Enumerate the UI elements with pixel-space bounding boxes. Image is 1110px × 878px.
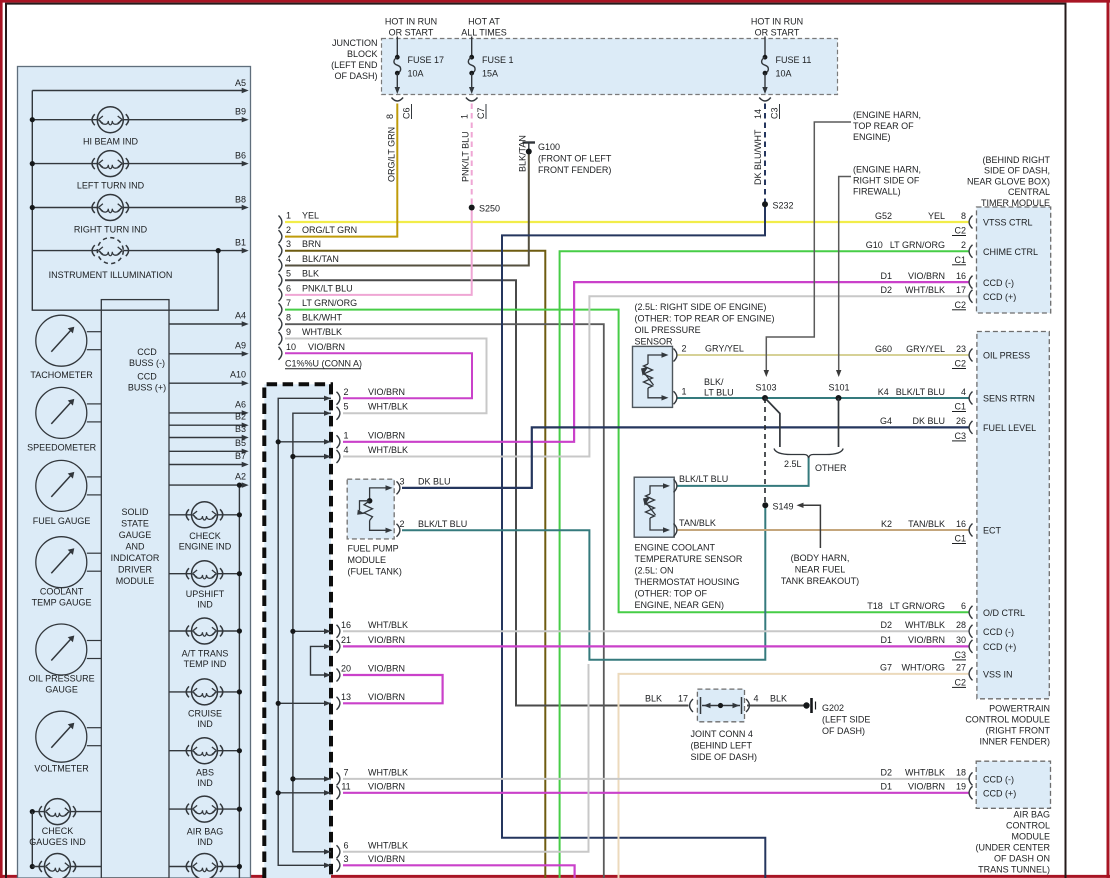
powertrain control module box: [977, 332, 1049, 699]
splice S101: [836, 395, 842, 401]
svg-text:VIO/BRN: VIO/BRN: [368, 430, 405, 440]
svg-text:7: 7: [343, 767, 348, 777]
svg-text:2.5L: 2.5L: [784, 459, 802, 469]
svg-text:TIMER MODULE: TIMER MODULE: [981, 198, 1050, 208]
svg-text:OF DASH): OF DASH): [334, 71, 377, 81]
svg-text:SOLID: SOLID: [121, 507, 149, 517]
oil pressure sensor box: [633, 346, 673, 407]
fuel pump wiper arrow: [360, 501, 370, 511]
lamp A/T TRANS TEMP IND: [192, 618, 218, 644]
svg-text:30: 30: [956, 635, 966, 645]
lamp CHECK GAUGES IND: [44, 799, 70, 825]
svg-text:A9: A9: [235, 340, 246, 350]
svg-text:ALL TIMES: ALL TIMES: [461, 28, 507, 38]
svg-text:D2: D2: [880, 620, 892, 630]
connector arrow at y 646.4: [324, 644, 331, 649]
engine coolant temperature sensor resistor: [646, 494, 655, 518]
svg-text:O/D CTRL: O/D CTRL: [983, 608, 1025, 618]
svg-text:5: 5: [286, 269, 291, 279]
svg-text:BLK/LT BLU: BLK/LT BLU: [896, 387, 945, 397]
lamp HI BEAM IND: [97, 107, 123, 133]
svg-text:UPSHIFT: UPSHIFT: [186, 589, 225, 599]
svg-text:A10: A10: [230, 370, 246, 380]
gauge VOLTMETER: [36, 711, 87, 762]
lamp CRUISE IND wire: [169, 691, 239, 693]
svg-text:(FRONT OF LEFT: (FRONT OF LEFT: [538, 154, 612, 164]
svg-text:6: 6: [961, 601, 966, 611]
svg-text:WHT/BLK: WHT/BLK: [905, 620, 945, 630]
svg-text:B7: B7: [235, 451, 246, 461]
svg-text:ENGINE, NEAR GEN): ENGINE, NEAR GEN): [635, 600, 725, 610]
connector arrow at y 792.8: [324, 790, 331, 795]
lamp CHECK ENGINE IND: [192, 502, 218, 528]
svg-text:CCD (-): CCD (-): [983, 775, 1014, 785]
svg-text:IND: IND: [197, 837, 213, 847]
svg-text:D1: D1: [880, 635, 892, 645]
cluster lamp bus and illumination loop: [32, 91, 218, 311]
svg-text:DRIVER: DRIVER: [118, 565, 153, 575]
wire YEL pin1 to CTM VTSS CTRL: [285, 221, 969, 223]
svg-text:C3: C3: [770, 107, 780, 119]
svg-text:CCD: CCD: [137, 347, 157, 357]
svg-text:AND: AND: [125, 542, 145, 552]
svg-text:S101: S101: [829, 383, 850, 393]
svg-text:ABS: ABS: [196, 768, 214, 778]
svg-text:C1: C1: [954, 534, 966, 544]
svg-text:BLK/: BLK/: [704, 377, 724, 387]
pointer body harn near fuel tank breakout to S149: [801, 505, 820, 548]
svg-text:B1: B1: [235, 238, 246, 248]
svg-text:JUNCTION: JUNCTION: [332, 38, 378, 48]
wire LT GRN/ORG pin7 to PCM O/D CTRL: [285, 310, 969, 613]
svg-text:G4: G4: [880, 416, 892, 426]
svg-text:19: 19: [956, 782, 966, 792]
svg-text:AIR BAG: AIR BAG: [187, 827, 224, 837]
svg-text:CHECK: CHECK: [189, 531, 221, 541]
trunk branch pin1: [278, 441, 331, 443]
svg-text:HOT IN RUN: HOT IN RUN: [385, 17, 437, 27]
connector C3 below fuse 11: [759, 98, 771, 102]
brace 2.5L OTHER: [774, 449, 843, 459]
solid state gauge and indicator driver module box: [101, 300, 169, 878]
svg-text:B3: B3: [235, 424, 246, 434]
svg-text:ENGINE COOLANT: ENGINE COOLANT: [635, 543, 716, 553]
svg-text:BLK/WHT: BLK/WHT: [302, 313, 343, 323]
svg-text:D2: D2: [880, 768, 892, 778]
svg-text:VOLTMETER: VOLTMETER: [34, 764, 89, 774]
svg-text:B9: B9: [235, 107, 246, 117]
svg-text:3: 3: [286, 239, 291, 249]
wire dashed S103 to S149: [764, 398, 766, 505]
joint conn 4 internals: [690, 699, 693, 712]
svg-text:6: 6: [343, 840, 348, 850]
svg-text:10A: 10A: [408, 69, 424, 79]
svg-text:MODULE: MODULE: [348, 555, 387, 565]
svg-text:C1%%U (CONN A): C1%%U (CONN A): [285, 359, 362, 369]
wire stub S101 OTHER option: [838, 398, 840, 447]
svg-text:TANK BREAKOUT): TANK BREAKOUT): [781, 576, 859, 586]
wire BLK joint conn 4 to G202: [747, 705, 805, 707]
svg-text:G202: G202: [822, 703, 844, 713]
wire A6 arrow: [169, 412, 244, 414]
svg-text:BLK/LT BLU: BLK/LT BLU: [679, 474, 728, 484]
svg-text:FRONT FENDER): FRONT FENDER): [538, 165, 611, 175]
wire BLK/LT BLU fuel pump pin2 to S149: [402, 505, 765, 659]
svg-text:YEL: YEL: [302, 211, 319, 221]
connector arrow at y 456.5: [324, 454, 331, 459]
svg-text:GRY/YEL: GRY/YEL: [705, 344, 744, 354]
svg-text:VIO/BRN: VIO/BRN: [368, 387, 405, 397]
svg-text:G60: G60: [875, 344, 892, 354]
svg-text:SIDE OF DASH,: SIDE OF DASH,: [984, 166, 1050, 176]
wire WHT/ORG PCM VSS IN down off page: [619, 674, 970, 878]
svg-text:DK BLU: DK BLU: [912, 416, 945, 426]
splice S232: [762, 201, 768, 207]
svg-text:BLK/LT BLU: BLK/LT BLU: [418, 519, 467, 529]
svg-text:BLK/TAN: BLK/TAN: [518, 135, 528, 172]
wire BLK/TAN pin4 to G100: [285, 153, 529, 266]
wire BLK/LT BLU sensor return S103 S101 to PCM: [678, 397, 970, 399]
svg-text:GAUGE: GAUGE: [119, 530, 152, 540]
svg-text:LT GRN/ORG: LT GRN/ORG: [890, 601, 945, 611]
wire VIO/BRN cluster pin3 down off page: [343, 865, 575, 878]
oil pressure sensor internal wiring: [648, 355, 665, 364]
wire VIO/BRN cluster pin11 to air bag CCD plus: [343, 792, 969, 794]
svg-text:5: 5: [343, 402, 348, 412]
svg-text:D1: D1: [880, 271, 892, 281]
wire GRY/YEL oil pressure sensor to PCM: [678, 354, 970, 356]
wire A9 arrow: [169, 353, 244, 355]
connector arc C1 conn A at y 294.9: [279, 288, 282, 301]
svg-text:VIO/BRN: VIO/BRN: [368, 854, 405, 864]
connector C7 below fuse 1: [466, 98, 478, 102]
svg-text:CONTROL MODULE: CONTROL MODULE: [965, 715, 1050, 725]
svg-text:3: 3: [343, 854, 348, 864]
svg-text:13: 13: [341, 692, 351, 702]
oil pressure sensor resistor: [644, 364, 653, 388]
cluster connector trunk 2: [293, 413, 331, 852]
svg-text:BLK: BLK: [770, 694, 787, 704]
lamp bottom left cut off wire: [32, 866, 101, 868]
wire LT GRN/ORG CTM CHIME CTRL down off page: [560, 251, 969, 878]
fuse 1: [471, 37, 473, 58]
svg-text:B2: B2: [235, 412, 246, 422]
svg-text:2: 2: [961, 240, 966, 250]
svg-text:D2: D2: [880, 285, 892, 295]
wire WHT/BLK cluster pin6 riser: [343, 664, 589, 852]
svg-text:CHECK: CHECK: [42, 826, 74, 836]
svg-text:(2.5L: RIGHT SIDE OF ENGINE): (2.5L: RIGHT SIDE OF ENGINE): [635, 302, 767, 312]
svg-text:ECT: ECT: [983, 526, 1002, 536]
junction block box: [382, 39, 838, 95]
splice S250: [469, 205, 475, 211]
lamp A/T TRANS TEMP IND wire: [169, 630, 239, 632]
svg-text:C1: C1: [954, 255, 966, 265]
svg-text:G10: G10: [866, 240, 883, 250]
svg-text:AIR BAG: AIR BAG: [1013, 810, 1050, 820]
lamp UPSHIFT IND wire: [169, 573, 239, 575]
lamp CHECK GAUGES IND wire: [32, 811, 101, 813]
svg-text:15A: 15A: [482, 69, 498, 79]
wire BLK/LT BLU brace to ECT sensor: [678, 456, 809, 486]
gauge OIL PRESSURE GAUGE: [36, 624, 87, 675]
svg-text:A6: A6: [235, 399, 246, 409]
svg-text:S103: S103: [756, 383, 777, 393]
PCM connector arc at y 631.3: [969, 625, 972, 638]
svg-text:1: 1: [286, 211, 291, 221]
engine coolant temperature sensor box: [634, 477, 674, 537]
svg-text:(BEHIND LEFT: (BEHIND LEFT: [691, 741, 753, 751]
splice S149: [762, 502, 768, 508]
wire B2 arrow: [169, 424, 244, 426]
svg-text:SENS RTRN: SENS RTRN: [983, 394, 1035, 404]
svg-text:K2: K2: [881, 519, 892, 529]
svg-text:TAN/BLK: TAN/BLK: [908, 519, 945, 529]
fuel pump module internal wiring: [370, 488, 389, 501]
wire A10 arrow: [169, 382, 244, 384]
splice S103: [762, 395, 768, 401]
page border red frame: [0, 0, 1110, 3]
svg-text:ORG/LT GRN: ORG/LT GRN: [387, 127, 397, 182]
CTM connector arc at y 251.3: [969, 245, 972, 258]
svg-text:8: 8: [961, 211, 966, 221]
PCM connector arc at y 646.4: [969, 640, 972, 653]
svg-text:OIL PRESSURE: OIL PRESSURE: [635, 325, 701, 335]
svg-text:C2: C2: [954, 677, 966, 687]
svg-text:(RIGHT FRONT: (RIGHT FRONT: [986, 726, 1051, 736]
svg-text:VIO/BRN: VIO/BRN: [368, 692, 405, 702]
svg-text:B5: B5: [235, 438, 246, 448]
connector arrow at y 703.3: [324, 701, 331, 706]
connector arc C1 conn A at y 236.6: [279, 230, 282, 243]
connector arrow at y 413.2: [324, 410, 331, 415]
wire WHT/BLK cluster pin4 to CTM CCD plus: [343, 296, 969, 456]
wire A2 arrow: [169, 484, 244, 486]
svg-text:17: 17: [956, 285, 966, 295]
svg-text:4: 4: [343, 445, 348, 455]
svg-text:HOT IN RUN: HOT IN RUN: [751, 17, 803, 27]
svg-text:(BODY HARN,: (BODY HARN,: [791, 553, 850, 563]
svg-text:4: 4: [961, 387, 966, 397]
wire DK BLU/WHT fuse11 to S232 dashed: [764, 104, 766, 205]
wire WHT/BLK pin9 to cluster pin5: [285, 339, 487, 414]
svg-text:4: 4: [754, 694, 759, 704]
lamp CHECK ENGINE IND wire: [169, 514, 239, 516]
svg-text:WHT/BLK: WHT/BLK: [368, 445, 408, 455]
svg-text:(ENGINE HARN,: (ENGINE HARN,: [853, 165, 921, 175]
trunk branch pin11: [278, 792, 331, 794]
svg-text:6: 6: [286, 283, 291, 293]
svg-text:VIO/BRN: VIO/BRN: [908, 782, 945, 792]
svg-text:G100: G100: [538, 142, 560, 152]
PCM connector arc at y 427.4: [969, 421, 972, 434]
svg-text:GAUGES IND: GAUGES IND: [29, 837, 86, 847]
trunk branch pin16: [293, 630, 331, 632]
CTM connector arc at y 282.1: [969, 276, 972, 289]
svg-text:GAUGE: GAUGE: [45, 685, 78, 695]
svg-text:3: 3: [399, 476, 404, 486]
svg-text:CCD (+): CCD (+): [983, 789, 1016, 799]
svg-text:DK BLU/WHT: DK BLU/WHT: [753, 129, 763, 185]
connector arc C1 conn A at y 250.7: [279, 244, 282, 257]
wire VIO/BRN cluster pin21 to PCM CCD plus: [343, 645, 969, 647]
fuel pump module box: [347, 479, 394, 539]
lamp INSTRUMENT ILLUMINATION row wire: [32, 250, 243, 252]
svg-text:9: 9: [286, 327, 291, 337]
svg-text:8: 8: [385, 114, 395, 119]
svg-text:2: 2: [399, 519, 404, 529]
pointer engine harn right side of firewall to S101: [839, 177, 851, 372]
lamp ABS IND wire: [169, 750, 239, 752]
lamp LEFT TURN IND row wire: [32, 163, 243, 165]
svg-text:2: 2: [343, 387, 348, 397]
svg-text:1: 1: [460, 114, 470, 119]
svg-text:MODULE: MODULE: [1011, 832, 1050, 842]
connector arrow at y 398.3: [324, 396, 331, 401]
svg-text:FUSE 17: FUSE 17: [408, 55, 445, 65]
wire A4 arrow: [169, 323, 244, 325]
trunk branch pin7: [293, 778, 331, 780]
svg-text:CONTROL: CONTROL: [1006, 821, 1050, 831]
svg-text:C3: C3: [954, 650, 966, 660]
svg-text:LT GRN/ORG: LT GRN/ORG: [302, 298, 357, 308]
indicator lamp bus A2: [238, 485, 240, 878]
lamp bottom cut off IND: [192, 854, 218, 878]
svg-text:VIO/BRN: VIO/BRN: [368, 781, 405, 791]
svg-text:CCD (-): CCD (-): [983, 278, 1014, 288]
lamp CRUISE IND: [192, 679, 218, 705]
svg-text:DK BLU: DK BLU: [418, 476, 451, 486]
wire B3 arrow: [169, 437, 244, 439]
instrument cluster panel: [18, 67, 251, 878]
connector arc C1 conn A at y 280.2: [279, 274, 282, 287]
svg-text:CHIME CTRL: CHIME CTRL: [983, 247, 1038, 257]
svg-text:FIREWALL): FIREWALL): [853, 187, 901, 197]
svg-text:C3: C3: [954, 431, 966, 441]
wire A5 row: [32, 90, 243, 92]
svg-text:HI BEAM IND: HI BEAM IND: [83, 137, 139, 147]
pointer engine harn top rear of engine to S103: [766, 122, 851, 371]
fuel pump resistor: [364, 501, 373, 521]
svg-text:1: 1: [343, 430, 348, 440]
svg-text:TEMP GAUGE: TEMP GAUGE: [32, 598, 92, 608]
svg-text:LT GRN/ORG: LT GRN/ORG: [890, 240, 945, 250]
svg-text:27: 27: [956, 663, 966, 673]
connector arc C1 conn A at y 309.6: [279, 303, 282, 316]
svg-text:WHT/BLK: WHT/BLK: [905, 285, 945, 295]
svg-text:10: 10: [286, 342, 296, 352]
svg-text:BLOCK: BLOCK: [347, 49, 378, 59]
svg-text:LEFT TURN IND: LEFT TURN IND: [77, 181, 145, 191]
gauge TACHOMETER: [36, 315, 87, 366]
lamp ABS IND: [192, 738, 218, 764]
svg-text:28: 28: [956, 620, 966, 630]
svg-text:14: 14: [753, 109, 763, 119]
svg-text:(ENGINE HARN,: (ENGINE HARN,: [853, 110, 921, 120]
svg-text:20: 20: [341, 664, 351, 674]
gauge FUEL GAUGE: [36, 460, 87, 511]
connector arc C1 conn A at y 222: [279, 216, 282, 229]
svg-text:1: 1: [682, 387, 687, 397]
svg-text:18: 18: [956, 768, 966, 778]
fuse 17: [396, 37, 398, 58]
svg-text:C2: C2: [954, 300, 966, 310]
wire VIO/BRN pin10 to cluster pin2: [285, 353, 472, 398]
svg-text:G7: G7: [880, 663, 892, 673]
wire PNK/LT BLU S250 to pin6: [285, 208, 472, 295]
wire B7 arrow: [169, 464, 244, 466]
svg-text:OF DASH): OF DASH): [822, 726, 865, 736]
lamp bottom cut off IND wire: [169, 866, 239, 868]
wire PNK/LT BLU fuse1 to S250 dashed: [471, 104, 473, 208]
svg-text:IND: IND: [197, 600, 213, 610]
svg-text:INDICATOR: INDICATOR: [111, 553, 160, 563]
svg-text:INSTRUMENT ILLUMINATION: INSTRUMENT ILLUMINATION: [49, 270, 173, 280]
svg-text:CENTRAL: CENTRAL: [1008, 187, 1050, 197]
connector arrow at y 851.8: [324, 849, 331, 854]
trunk branch pin13: [278, 702, 331, 704]
ground G202: [803, 702, 809, 708]
svg-text:B6: B6: [235, 151, 246, 161]
svg-text:11: 11: [341, 781, 350, 791]
svg-text:2: 2: [682, 344, 687, 354]
svg-text:TEMPERATURE SENSOR: TEMPERATURE SENSOR: [635, 554, 743, 564]
PCM connector arc at y 673.9: [969, 667, 972, 680]
svg-text:STATE: STATE: [121, 519, 149, 529]
svg-text:C7: C7: [476, 107, 486, 119]
svg-text:VTSS CTRL: VTSS CTRL: [983, 218, 1033, 228]
svg-text:HOT AT: HOT AT: [468, 17, 500, 27]
svg-text:WHT/BLK: WHT/BLK: [368, 620, 408, 630]
svg-text:INNER FENDER): INNER FENDER): [979, 737, 1050, 747]
svg-text:TEMP IND: TEMP IND: [184, 659, 227, 669]
connector arrow at y 865.3: [324, 863, 331, 868]
svg-text:A4: A4: [235, 311, 246, 321]
svg-text:SPEEDOMETER: SPEEDOMETER: [27, 443, 97, 453]
trunk branch pin4: [293, 456, 331, 458]
cluster connector dashed box: [264, 384, 331, 878]
svg-text:OTHER: OTHER: [815, 463, 847, 473]
svg-text:YEL: YEL: [928, 211, 945, 221]
svg-text:K4: K4: [878, 387, 889, 397]
svg-text:FUSE 11: FUSE 11: [776, 55, 812, 65]
connector arrow at y 675: [324, 672, 331, 677]
lamp AIR BAG IND: [192, 796, 218, 822]
lamp AIR BAG IND wire: [169, 808, 239, 810]
wire VIO/BRN cluster pin1 to CTM CCD minus: [343, 282, 969, 442]
svg-text:D1: D1: [880, 782, 892, 792]
wire BLK pin5 to joint conn 4: [285, 280, 689, 705]
svg-text:PNK/LT BLU: PNK/LT BLU: [461, 131, 471, 182]
svg-text:TRANS TUNNEL): TRANS TUNNEL): [978, 865, 1050, 875]
svg-text:(FUEL TANK): (FUEL TANK): [348, 567, 402, 577]
svg-text:CCD (+): CCD (+): [983, 642, 1016, 652]
svg-text:IND: IND: [197, 719, 213, 729]
svg-text:23: 23: [956, 344, 966, 354]
svg-text:VSS IN: VSS IN: [983, 670, 1013, 680]
svg-text:VIO/BRN: VIO/BRN: [308, 342, 345, 352]
svg-text:B8: B8: [235, 195, 246, 205]
wire ORG/LT GRN fuse17 to pin2: [285, 104, 397, 237]
svg-text:CCD: CCD: [137, 372, 157, 382]
svg-text:FUSE 1: FUSE 1: [482, 55, 514, 65]
lamp RIGHT TURN IND: [97, 195, 123, 221]
svg-text:FUEL GAUGE: FUEL GAUGE: [33, 516, 91, 526]
svg-text:OIL PRESSURE: OIL PRESSURE: [29, 674, 95, 684]
svg-text:10A: 10A: [776, 69, 792, 79]
wire TAN/BLK ECT sensor to PCM: [678, 529, 970, 531]
air bag module connector arc at y 778.9: [969, 772, 972, 785]
